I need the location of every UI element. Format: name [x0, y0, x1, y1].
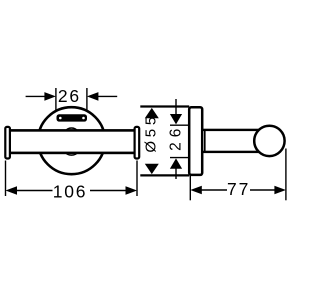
screw hole right — [82, 117, 85, 120]
dim O55: arrow up — [145, 108, 159, 118]
collar line at arm base — [204, 130, 206, 152]
side view: bottom edge line extended left — [140, 174, 189, 176]
dim line 77 right segment — [250, 189, 275, 191]
svg-text:Ø55: Ø55 — [143, 113, 160, 153]
dim line 77 left segment — [201, 189, 227, 191]
front view wall plate circle — [38, 107, 105, 174]
dim 26 side: lower line — [175, 168, 177, 179]
leader line right of 26 — [98, 95, 117, 97]
side view wall plate — [189, 107, 202, 175]
dim O55: arrow down — [145, 164, 159, 174]
svg-text:106: 106 — [53, 182, 88, 202]
svg-text:26: 26 — [58, 86, 81, 106]
arrowhead pointing right, 77 right end — [274, 186, 286, 195]
extension line left of 106 dim — [5, 161, 7, 197]
horizontal hook bar — [8, 130, 137, 153]
leader line left of 26 — [26, 95, 45, 97]
left end cap — [5, 127, 10, 159]
dim line 106 right segment — [90, 190, 126, 192]
arrowhead pointing left at right ext line — [87, 92, 99, 101]
arrowhead pointing left, 77 left end — [190, 186, 202, 195]
arrowhead pointing right at left ext line — [44, 92, 56, 101]
tick at ball top tangent — [170, 124, 189, 126]
dim 26 side: arrow up to ball bottom — [170, 158, 182, 168]
screw hole left — [59, 117, 62, 120]
tick at ball bottom tangent — [170, 157, 189, 159]
dim 26 side: arrow down to ball top — [170, 114, 182, 124]
extension line right of 106 dim — [136, 161, 138, 197]
svg-text:77: 77 — [227, 179, 250, 199]
dim 26 side: upper line — [175, 99, 177, 115]
ball end of hook — [254, 126, 284, 156]
hook arm — [202, 130, 258, 152]
extension line left of top 26 dim — [55, 88, 57, 110]
svg-text:26: 26 — [168, 124, 185, 151]
arrowhead pointing left, 106 left end — [6, 186, 18, 195]
side view: top edge line extended left — [140, 105, 189, 107]
small bump ellipse below bar — [66, 149, 77, 155]
extension line right of 77 dim (from ball) — [285, 149, 287, 201]
dim line 106 left segment — [17, 190, 53, 192]
small bump ellipse above bar — [66, 128, 77, 135]
extension line left of 77 dim — [189, 176, 191, 200]
extension line right of top 26 dim — [86, 88, 88, 110]
right end cap — [135, 127, 140, 159]
arrowhead pointing right, 106 right end — [126, 186, 138, 195]
mounting slot (black) — [57, 114, 88, 121]
